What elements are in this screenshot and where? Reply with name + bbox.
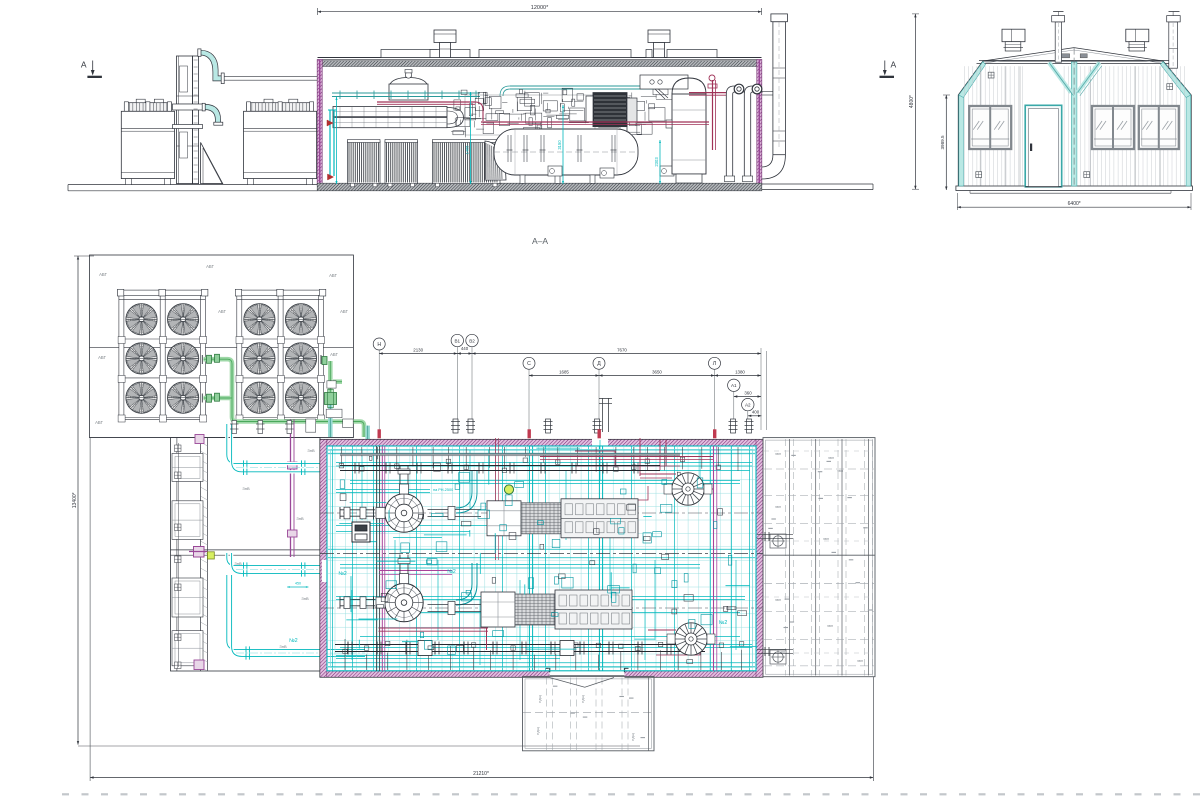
- svg-text:пдщ: пдщ: [631, 732, 635, 740]
- svg-text:ЗнВ: ЗнВ: [301, 596, 309, 601]
- svg-text:ЗнВ: ЗнВ: [234, 561, 242, 566]
- svg-text:3989.5: 3989.5: [940, 135, 945, 149]
- svg-text:АВГ: АВГ: [99, 272, 108, 277]
- svg-text:АВГ: АВГ: [218, 309, 227, 314]
- svg-text:А–А: А–А: [532, 236, 548, 246]
- svg-text:АВГ: АВГ: [206, 264, 215, 269]
- svg-text:АВГ: АВГ: [340, 309, 349, 314]
- svg-text:6400*: 6400*: [1068, 201, 1081, 207]
- svg-text:эвп: эвп: [827, 624, 833, 628]
- svg-text:360: 360: [744, 390, 752, 395]
- svg-text:эвп: эвп: [828, 456, 834, 460]
- svg-text:ЗнВ: ЗнВ: [296, 516, 304, 521]
- svg-text:пдщ: пдщ: [581, 694, 585, 702]
- svg-text:ЗнВ: ЗнВ: [242, 486, 250, 491]
- svg-text:А1: А1: [731, 383, 737, 388]
- svg-text:1685: 1685: [559, 369, 569, 374]
- svg-text:эвп: эвп: [775, 452, 781, 456]
- svg-text:А2: А2: [745, 402, 751, 407]
- svg-text:АВГ: АВГ: [98, 355, 107, 360]
- svg-text:1465: 1465: [465, 145, 470, 155]
- svg-text:АВГ: АВГ: [330, 352, 339, 357]
- svg-text:№2: №2: [338, 571, 347, 577]
- svg-text:В1: В1: [454, 338, 460, 343]
- svg-text:А: А: [890, 60, 896, 70]
- svg-text:Д: Д: [597, 361, 601, 367]
- svg-text:7670: 7670: [617, 347, 627, 352]
- svg-text:№2: №2: [447, 569, 456, 575]
- svg-text:АВГ: АВГ: [95, 420, 104, 425]
- svg-text:Л: Л: [713, 361, 716, 367]
- svg-text:№2: №2: [289, 638, 298, 644]
- svg-text:ЗнВ: ЗнВ: [307, 448, 315, 453]
- svg-text:эвп: эвп: [857, 659, 863, 663]
- svg-text:эвп: эвп: [775, 505, 781, 509]
- svg-text:3150: 3150: [557, 140, 562, 150]
- svg-text:4800*: 4800*: [909, 95, 915, 108]
- svg-text:21210*: 21210*: [473, 771, 489, 777]
- svg-text:1380: 1380: [735, 369, 745, 374]
- svg-text:на РН-2500: на РН-2500: [433, 488, 453, 492]
- svg-text:С: С: [527, 361, 531, 367]
- svg-text:пдщ: пдщ: [536, 726, 540, 734]
- svg-text:450: 450: [295, 582, 301, 586]
- svg-text:Н: Н: [377, 342, 381, 348]
- svg-text:2130: 2130: [413, 347, 423, 352]
- svg-text:440: 440: [461, 346, 469, 351]
- svg-text:АВГ: АВГ: [329, 273, 338, 278]
- svg-text:пдщ: пдщ: [538, 694, 542, 702]
- svg-text:400: 400: [752, 410, 760, 415]
- svg-text:13400*: 13400*: [72, 492, 78, 508]
- svg-text:3650: 3650: [652, 369, 662, 374]
- svg-text:№2: №2: [719, 620, 728, 626]
- svg-text:12000*: 12000*: [531, 5, 549, 11]
- svg-text:эвп: эвп: [775, 598, 781, 602]
- svg-text:эвп: эвп: [823, 537, 829, 541]
- svg-text:ЗнВ: ЗнВ: [279, 644, 287, 649]
- svg-text:эвп: эвп: [837, 469, 843, 473]
- svg-text:В2: В2: [469, 338, 475, 343]
- svg-text:2303: 2303: [654, 157, 659, 167]
- svg-text:А: А: [81, 60, 87, 70]
